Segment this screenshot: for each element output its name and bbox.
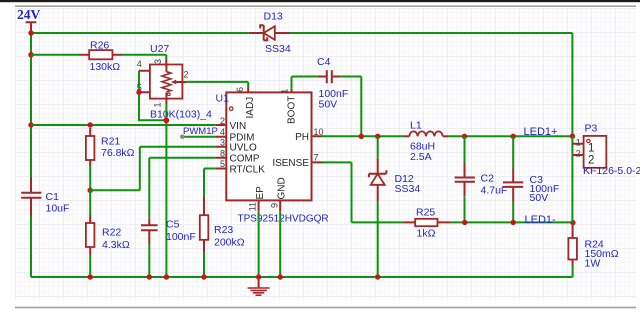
svg-text:1: 1 — [588, 142, 594, 154]
op-amp U1 TPS92512HVDGQR — [216, 87, 329, 224]
svg-text:6: 6 — [235, 87, 245, 92]
svg-text:PWM1P: PWM1P — [183, 126, 218, 137]
svg-text:KF126-5.0-2: KF126-5.0-2 — [583, 165, 640, 177]
svg-text:SS34: SS34 — [265, 43, 291, 55]
svg-text:7: 7 — [314, 153, 319, 163]
svg-text:4: 4 — [137, 59, 142, 69]
junction node R26 branch — [28, 52, 33, 57]
svg-text:R26: R26 — [90, 40, 109, 52]
junction C2 bottom — [462, 220, 467, 225]
svg-text:4: 4 — [220, 127, 225, 137]
junction node 24V top — [28, 30, 33, 35]
junction C2 top — [462, 134, 467, 139]
inductor L1 — [404, 120, 572, 164]
svg-text:2: 2 — [184, 70, 189, 80]
diode D13 — [249, 11, 291, 55]
svg-text:2.5A: 2.5A — [410, 151, 432, 163]
svg-text:C1: C1 — [46, 191, 60, 203]
svg-text:U1: U1 — [216, 92, 230, 104]
svg-text:8: 8 — [220, 148, 225, 158]
resistor R21 — [86, 128, 135, 190]
svg-text:IADJ: IADJ — [245, 97, 256, 119]
svg-text:1: 1 — [576, 138, 581, 148]
wire IADJ net (pot wiper to pin 6) — [187, 82, 248, 87]
svg-text:1: 1 — [279, 89, 289, 94]
wire COMP net — [149, 158, 216, 219]
svg-text:1kΩ: 1kΩ — [417, 228, 436, 240]
resistor R24 — [568, 223, 618, 277]
svg-text:5: 5 — [220, 159, 225, 169]
svg-text:4.3kΩ: 4.3kΩ — [102, 239, 130, 251]
ground — [248, 277, 270, 295]
wire RT/CLK net — [204, 169, 216, 197]
resistor R25 — [404, 206, 573, 239]
junction R21 top — [88, 122, 93, 127]
junction pot pin5 — [136, 90, 141, 95]
junction C3 top — [511, 134, 516, 139]
svg-text:50V: 50V — [319, 99, 338, 111]
svg-text:LED1-: LED1- — [525, 214, 557, 226]
svg-text:9: 9 — [270, 203, 280, 208]
svg-text:10uF: 10uF — [46, 203, 70, 215]
capacitor C5 — [141, 219, 196, 278]
wire top rail — [31, 32, 572, 34]
resistor R23 — [200, 197, 245, 278]
junction LED1- / R24 — [570, 220, 575, 225]
net flag 24V — [17, 7, 41, 33]
resistor R26 — [31, 40, 166, 73]
junction C5 bottom rail — [147, 274, 152, 279]
junction node VIN branch — [28, 122, 33, 127]
wire EP to rail — [258, 211, 260, 277]
junction R21/R22 tap — [88, 188, 93, 193]
wire BOOT net — [292, 77, 318, 89]
svg-text:U27: U27 — [150, 43, 169, 55]
svg-text:C4: C4 — [317, 56, 331, 68]
wire PH net — [322, 135, 404, 137]
svg-text:130kΩ: 130kΩ — [90, 61, 121, 73]
svg-text:BOOT: BOOT — [287, 96, 298, 124]
svg-text:GND: GND — [277, 177, 288, 199]
port PWM1P — [180, 126, 218, 139]
junction C3 bottom — [511, 220, 516, 225]
svg-text:200kΩ: 200kΩ — [214, 236, 245, 248]
wire GND to rail — [279, 211, 281, 277]
resistor R22 — [86, 190, 130, 277]
junction EP bottom rail — [256, 274, 261, 279]
svg-text:B10K(103)_4: B10K(103)_4 — [150, 109, 212, 121]
connector P3 — [572, 122, 640, 222]
wire UVLO tap — [90, 147, 216, 191]
svg-text:L1: L1 — [410, 120, 422, 132]
wire pot pin1 down to ground rail — [165, 104, 167, 277]
svg-text:ISENSE: ISENSE — [272, 158, 309, 169]
svg-text:EP: EP — [255, 186, 266, 200]
svg-text:RT/CLK: RT/CLK — [230, 164, 266, 175]
svg-text:LED1+: LED1+ — [524, 126, 558, 138]
svg-text:C5: C5 — [166, 219, 180, 231]
svg-text:3: 3 — [153, 59, 163, 64]
wire ISENSE net — [322, 162, 404, 222]
svg-text:2: 2 — [576, 149, 581, 159]
svg-text:COMP: COMP — [230, 154, 260, 165]
svg-text:R21: R21 — [101, 135, 120, 147]
svg-text:D13: D13 — [264, 11, 283, 23]
junction D12 bottom — [375, 274, 380, 279]
svg-text:3: 3 — [220, 137, 225, 147]
capacitor C1 — [21, 177, 69, 277]
junction GND bottom rail — [278, 274, 283, 279]
junction R22 bottom rail — [88, 274, 93, 279]
diode D12 — [369, 136, 420, 277]
svg-text:P3: P3 — [585, 122, 598, 134]
wire VIN net — [31, 124, 216, 126]
svg-text:24V: 24V — [17, 7, 41, 22]
junction LED1+ / P3 — [570, 134, 575, 139]
svg-text:R25: R25 — [416, 206, 435, 218]
wire left rail — [30, 33, 32, 177]
svg-text:R22: R22 — [102, 227, 121, 239]
svg-text:SS34: SS34 — [395, 183, 421, 195]
capacitor C4 — [317, 56, 361, 136]
svg-text:1: 1 — [153, 102, 163, 107]
svg-text:50V: 50V — [530, 192, 549, 204]
wire bottom ground rail — [31, 276, 573, 278]
svg-text:C2: C2 — [481, 172, 495, 184]
junction pot wiper tie — [163, 117, 169, 123]
capacitor C3 — [503, 136, 559, 222]
wire R26 to pot pin3 — [165, 55, 167, 60]
wire right drop to LED1+ — [571, 33, 573, 136]
svg-text:PH: PH — [295, 132, 309, 143]
svg-text:2: 2 — [220, 116, 225, 126]
svg-text:11: 11 — [247, 202, 257, 211]
svg-text:UVLO: UVLO — [230, 143, 257, 154]
junction R23 bottom rail — [201, 274, 206, 279]
svg-text:1W: 1W — [585, 258, 601, 270]
svg-text:VIN: VIN — [230, 121, 247, 132]
svg-text:R23: R23 — [214, 224, 233, 236]
potentiometer U27 — [137, 43, 212, 121]
junction D12/PH — [375, 134, 380, 139]
junction C4/PH — [359, 134, 364, 139]
svg-text:76.8kΩ: 76.8kΩ — [101, 147, 135, 159]
junction pot line bottom rail — [164, 274, 169, 279]
svg-text:TPS92512HVDGQR: TPS92512HVDGQR — [238, 213, 329, 224]
svg-text:100nF: 100nF — [166, 231, 196, 243]
wire pot pins 4/5 tie — [139, 71, 166, 121]
capacitor C2 — [455, 136, 508, 222]
